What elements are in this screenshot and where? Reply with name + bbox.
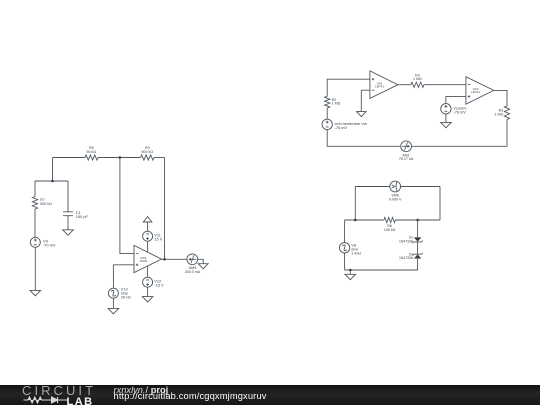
wire between diodes [417, 242, 419, 254]
wire arrow to V11 [147, 222, 149, 231]
resistor R8 [85, 146, 98, 160]
source Vcomm [441, 104, 467, 115]
wire V11 to op-amp [147, 241, 149, 252]
wire middle rail right [395, 219, 440, 221]
ground below V12 [142, 297, 153, 302]
svg-text:50 kΩ: 50 kΩ [87, 150, 97, 154]
op-amp OA2 [466, 77, 494, 105]
svg-text:LM741: LM741 [471, 90, 480, 94]
op-amp OA1 [370, 71, 398, 99]
svg-text:1 MΩ: 1 MΩ [495, 112, 504, 116]
source V12 [143, 277, 164, 287]
svg-text:-70 mV: -70 mV [43, 243, 56, 248]
source V11 [143, 231, 163, 241]
svg-text:TL081: TL081 [139, 259, 148, 263]
svg-text:150 pF: 150 pF [76, 214, 89, 219]
wire OA1 output [398, 84, 411, 86]
wire OA2 non-inverting input [446, 96, 466, 103]
wire top input segment [53, 157, 86, 159]
svg-text:500 kΩ: 500 kΩ [142, 150, 154, 154]
voltmeter VM6 [389, 181, 402, 201]
wire OA1 non-inverting input [327, 79, 370, 96]
resistor R6 [384, 217, 396, 231]
diode D2 zener [399, 252, 423, 260]
wire V9 to ground [34, 247, 36, 290]
wire OA2 output [494, 90, 507, 105]
source V13 [108, 265, 131, 300]
ground on bottom rail [345, 270, 356, 280]
capacitor C1 [63, 181, 89, 230]
wire middle rail left [345, 219, 384, 221]
wire OA1 inverting to ground [361, 90, 370, 111]
svg-text:15 V: 15 V [154, 237, 162, 242]
diode D1 zener [399, 236, 423, 244]
svg-text:300.0 mA: 300.0 mA [185, 270, 201, 274]
svg-text:1 MΩ: 1 MΩ [332, 102, 341, 106]
svg-text:100 kΩ: 100 kΩ [384, 228, 396, 232]
node output junction [163, 258, 166, 261]
ammeter AM5 [185, 254, 201, 274]
node source branch junction [51, 180, 54, 183]
wire op-amp output [162, 258, 187, 260]
ground right of AM5 [198, 264, 208, 269]
wire diode branch upper [417, 220, 419, 237]
svg-text:0.000 V: 0.000 V [389, 197, 402, 201]
resistor R3 [495, 106, 510, 120]
ground below V9 [30, 290, 41, 295]
svg-text:-76 mV: -76 mV [335, 125, 348, 130]
source V9 [30, 237, 56, 247]
svg-text:-15 V: -15 V [154, 283, 164, 288]
wire voltmeter top rail [355, 186, 440, 188]
wire R4 to OA2 [424, 84, 466, 86]
node inverting input junction [119, 156, 122, 159]
wire AM5 to ground [198, 259, 204, 263]
wire AM1 to R3 riser [412, 120, 508, 147]
wire R8 to R9 across node [98, 157, 141, 159]
wire Vcomm to ground [445, 114, 447, 122]
svg-text:1 kHz: 1 kHz [351, 250, 361, 255]
wire V12 to ground [147, 287, 149, 296]
ground below V13 [108, 308, 119, 313]
resistor R4 [411, 73, 424, 87]
svg-text:1N4733A: 1N4733A [399, 256, 414, 260]
op-amp OA6 [134, 245, 162, 272]
power arrow above V11 [143, 217, 152, 222]
ground at OA1 inverting input [357, 112, 367, 117]
wire R9 to feedback corner [154, 157, 165, 159]
wire left source branch [35, 158, 68, 182]
svg-text:1N4733A: 1N4733A [399, 239, 414, 243]
svg-text:LM741: LM741 [375, 85, 384, 89]
wire V13 to ground [112, 298, 114, 308]
node diode branch junction [416, 219, 419, 222]
wire left riser [354, 187, 356, 221]
wire feedback vertical [164, 158, 166, 260]
wire bottom rail [345, 253, 418, 270]
wire right riser [439, 187, 441, 221]
resistor R7 [32, 181, 52, 237]
ammeter AM1 [399, 141, 414, 161]
ground below Vcomm [441, 122, 452, 127]
resistor R9 [141, 146, 155, 160]
node ground junction [349, 269, 352, 272]
node middle rail left junction [354, 219, 357, 222]
svg-text:-76 mV: -76 mV [453, 109, 466, 114]
wire inverting input drop [120, 158, 134, 254]
source V8 [339, 220, 361, 255]
svg-text:20 Hz: 20 Hz [121, 295, 131, 300]
wire op-amp to V12 [147, 266, 149, 277]
svg-text:500 kΩ: 500 kΩ [40, 202, 52, 206]
ground below C1 [63, 230, 74, 235]
wire Vm to bottom rail [327, 130, 401, 147]
svg-text:1 MΩ: 1 MΩ [413, 77, 422, 81]
resistor R2 [325, 96, 341, 119]
svg-text:76.17 nA: 76.17 nA [399, 157, 414, 161]
wire non-inverting input [113, 264, 134, 266]
source cell membrane Vm [322, 119, 367, 130]
wire diode branch lower [417, 259, 419, 271]
